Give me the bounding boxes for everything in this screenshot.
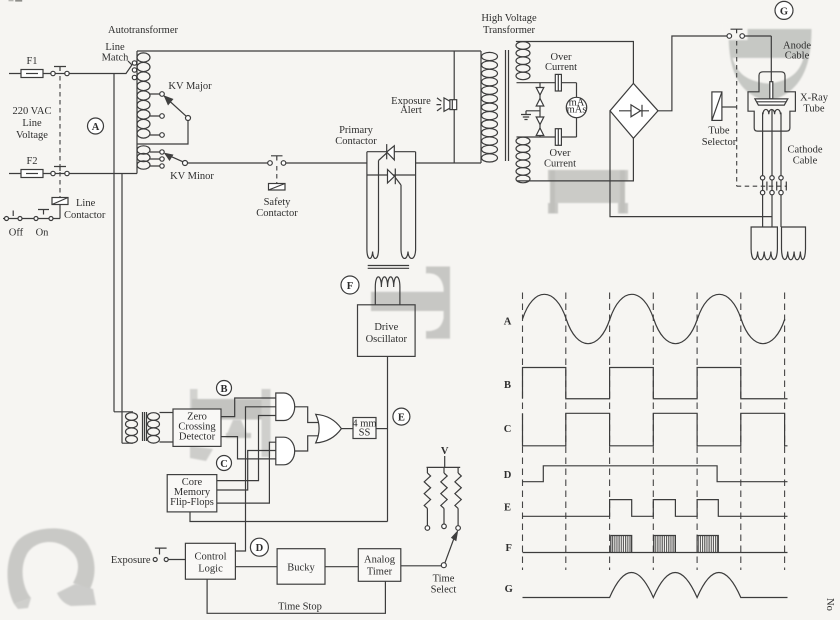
svg-text:Detector: Detector: [179, 432, 216, 443]
over current relay (upper): [517, 52, 578, 97]
wire F2 to autotransformer bottom: [69, 172, 137, 174]
svg-text:F2: F2: [26, 156, 37, 167]
node E: [393, 408, 410, 425]
time stop feedback wire: [207, 579, 385, 613]
svg-text:Timer: Timer: [367, 567, 393, 578]
wire 4mm SS to node E line: [376, 428, 388, 430]
svg-text:Bucky: Bucky: [287, 563, 315, 574]
svg-text:On: On: [36, 228, 50, 239]
zero crossing transformer: [114, 412, 173, 443]
node B: [217, 381, 232, 396]
wire AND1 output to OR: [295, 407, 318, 423]
svg-text:F1: F1: [26, 56, 37, 67]
OR gate: [316, 414, 342, 443]
svg-text:mAs: mAs: [567, 105, 587, 116]
svg-text:Over: Over: [550, 148, 571, 159]
exposure alert speaker: [391, 51, 457, 163]
svg-text:F: F: [505, 543, 511, 554]
HV primary winding: [481, 51, 498, 163]
svg-text:KV Minor: KV Minor: [170, 171, 214, 182]
svg-text:G: G: [505, 584, 513, 595]
node D: [250, 538, 268, 556]
svg-text:Line: Line: [76, 198, 96, 209]
svg-text:Time: Time: [433, 574, 455, 585]
bucky box: [277, 549, 325, 585]
wire ZCD upper output to AND1: [221, 398, 276, 417]
spark gaps: [536, 83, 544, 137]
svg-text:B: B: [504, 380, 511, 391]
wire primary contactor to HV primary: [416, 162, 481, 164]
x-ray tube envelope: [748, 72, 795, 131]
svg-text:Safety: Safety: [264, 197, 292, 208]
svg-text:Exposure: Exposure: [111, 555, 151, 566]
svg-text:Transformer: Transformer: [483, 25, 536, 36]
svg-text:B: B: [220, 384, 227, 395]
svg-text:Line: Line: [105, 42, 125, 53]
cathode wires: [763, 110, 781, 176]
wire ZCD lower output to AND2: [221, 437, 276, 459]
KV minor taps and selector: [150, 150, 214, 182]
time select switch arm: [431, 530, 459, 596]
KV major taps and selector: [137, 81, 212, 144]
svg-text:Primary: Primary: [339, 125, 374, 136]
HV secondary upper winding: [516, 42, 633, 84]
HV core: [506, 50, 509, 161]
svg-text:Voltage: Voltage: [16, 130, 48, 141]
svg-text:SS: SS: [359, 428, 371, 439]
wire flip-flop 1 to AND1: [217, 416, 276, 481]
waveform F baseline: [523, 552, 788, 554]
analog timer box: [358, 549, 401, 582]
drive transformer core: [368, 266, 409, 269]
safety contactor: [256, 156, 298, 219]
gray halftone blob (x-ray tube housing photo): [722, 22, 812, 102]
svg-text:Contactor: Contactor: [64, 210, 106, 221]
svg-text:Drive: Drive: [374, 322, 398, 333]
switch contact S1a: [51, 67, 69, 76]
waveform F bursts: [611, 536, 632, 553]
tube selector: [702, 41, 787, 186]
svg-text:No: No: [824, 598, 835, 611]
ground: [521, 111, 540, 120]
timing grid dashed lines: [523, 293, 785, 571]
switch contact S1b: [51, 167, 69, 176]
HV secondary lower winding: [516, 137, 633, 183]
primary contactor SCR pair: [367, 144, 416, 248]
svg-text:E: E: [504, 503, 511, 514]
waveform D: [523, 466, 788, 482]
svg-text:Analog: Analog: [364, 555, 396, 566]
svg-text:Control: Control: [194, 552, 226, 563]
wire core memory to 4mm SS vertical: [190, 512, 388, 522]
filament transformer (left): [751, 227, 777, 260]
svg-text:Time Stop: Time Stop: [278, 602, 322, 613]
wire bridge left vertex down and right (cathode supply): [610, 111, 772, 217]
wire bridge right vertex to anode switch: [658, 36, 727, 111]
page edge smudges: [9, 0, 14, 1]
svg-text:G: G: [780, 6, 788, 17]
wire OR to 4mm SS: [341, 428, 353, 430]
svg-text:Cathode: Cathode: [788, 145, 823, 156]
wire flip-flop 2 to AND2: [217, 451, 276, 491]
svg-text:X-Ray: X-Ray: [800, 93, 829, 104]
svg-text:F: F: [347, 281, 353, 292]
svg-text:Tube: Tube: [803, 104, 825, 115]
anode selector switch: [727, 29, 771, 82]
fuse F2: [9, 156, 51, 178]
AND gate 1: [276, 393, 295, 421]
4mm SS box: [352, 418, 376, 439]
line match taps: [102, 42, 137, 80]
meter mA mAs: [566, 97, 586, 117]
filament coil: [763, 109, 780, 114]
filament transformer (right): [782, 227, 806, 260]
exposure switch: [111, 548, 186, 566]
wire drive oscillator down to 4mm SS junction: [387, 356, 389, 521]
gang linkage (dashed): [59, 76, 61, 197]
waveform E: [523, 500, 788, 517]
svg-text:Alert: Alert: [400, 105, 422, 116]
node C: [217, 456, 232, 471]
svg-text:E: E: [398, 413, 405, 424]
core memory flip-flops box: [167, 475, 217, 512]
waveform A sine: [523, 294, 785, 343]
drive oscillator: [358, 305, 416, 357]
wire feed down to zero crossing transformer (right): [121, 174, 123, 444]
drive transformer secondary coil: [375, 277, 400, 305]
svg-text:A: A: [92, 122, 100, 133]
control logic box: [185, 543, 235, 579]
svg-text:A: A: [504, 316, 512, 327]
svg-text:Select: Select: [431, 585, 457, 596]
svg-text:C: C: [220, 459, 228, 470]
svg-text:KV Major: KV Major: [168, 81, 212, 92]
node A: [88, 118, 104, 134]
fuse F1: [9, 56, 51, 78]
svg-text:Autotransformer: Autotransformer: [108, 25, 178, 36]
wire flip-flop 3 to AND2: [217, 442, 276, 503]
svg-text:High Voltage: High Voltage: [481, 13, 537, 24]
svg-text:Oscillator: Oscillator: [366, 334, 408, 345]
cathode cable connector: [760, 176, 786, 195]
svg-text:Tube: Tube: [708, 126, 730, 137]
svg-text:Contactor: Contactor: [335, 136, 377, 147]
wire safety contactor to primary contactor: [286, 162, 367, 164]
node F: [341, 276, 359, 294]
node G: [775, 1, 793, 19]
anode stem: [770, 82, 773, 99]
svg-text:Cable: Cable: [785, 51, 810, 62]
gray halftone blob (bottom-left core photo): [7, 528, 96, 609]
bridge rectifier: [610, 83, 658, 138]
wire feed down to zero crossing transformer (left): [113, 74, 115, 412]
line contactor coil: [52, 198, 106, 222]
svg-text:D: D: [256, 543, 264, 554]
waveform C: [523, 413, 788, 446]
svg-text:Selector: Selector: [702, 137, 737, 148]
svg-text:Match: Match: [102, 53, 130, 64]
wire analog timer to time select: [401, 565, 442, 567]
wire D: control logic to AND1: [235, 407, 275, 551]
svg-text:Contactor: Contactor: [256, 208, 298, 219]
wire KV minor to safety contactor: [188, 162, 268, 164]
svg-text:Current: Current: [545, 62, 577, 73]
gray halftone blob (HV transformer core photo): [548, 170, 628, 214]
waveform B: [523, 368, 788, 399]
wire control logic to bucky: [235, 566, 277, 568]
off/on switches: [3, 205, 60, 239]
svg-text:Current: Current: [544, 159, 576, 170]
wires to filament transformers: [763, 195, 781, 227]
gray halftone blob (drive oscillator core photo): [371, 267, 450, 339]
wire AND2 output to OR: [295, 436, 318, 451]
svg-text:220 VAC: 220 VAC: [12, 106, 51, 117]
svg-text:Flip-Flops: Flip-Flops: [170, 497, 214, 508]
autotransformer winding: [137, 51, 150, 172]
label 220 VAC Line Voltage: [12, 106, 51, 141]
top bus wire to HV transformer: [137, 50, 481, 52]
AND gate 2: [276, 437, 295, 465]
gray halftone blob (zero-crossing core photo): [190, 389, 271, 461]
timing resistor bank: [424, 456, 461, 530]
svg-text:C: C: [504, 424, 512, 435]
zero crossing detector box: [173, 409, 221, 446]
waveform G: [523, 573, 788, 598]
svg-text:Cable: Cable: [793, 156, 818, 167]
svg-text:Line: Line: [22, 118, 42, 129]
wire bucky to analog timer: [325, 566, 358, 568]
svg-text:Off: Off: [9, 228, 24, 239]
svg-text:Logic: Logic: [198, 564, 223, 575]
anode disc: [755, 99, 788, 105]
drive transformer primary forks: [367, 248, 416, 258]
svg-text:V: V: [441, 446, 449, 457]
over current relay (lower): [517, 118, 577, 170]
svg-text:D: D: [504, 470, 512, 481]
wire F1 to autotransformer: [69, 65, 132, 74]
